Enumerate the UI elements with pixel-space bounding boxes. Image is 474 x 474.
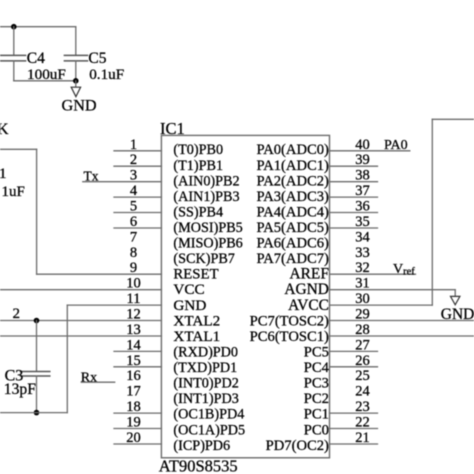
pin label PC0: [304, 422, 329, 438]
pin label XTAL1: [173, 328, 220, 345]
pin 39 stub right: [330, 165, 378, 167]
pin label (SCK)PB7: [173, 251, 235, 267]
svg-text:(OC1A)PD5: (OC1A)PD5: [173, 422, 245, 438]
pin number 10: [126, 276, 141, 292]
svg-text:37: 37: [355, 183, 370, 199]
label PA0: [384, 138, 408, 153]
pin label (INT0)PD2: [173, 376, 238, 392]
svg-text:17: 17: [126, 384, 141, 400]
pin number 39: [355, 152, 370, 168]
svg-text:3: 3: [130, 168, 137, 184]
svg-text:12: 12: [126, 307, 141, 323]
pin label (INT1)PD3: [173, 391, 238, 407]
pin label PC2: [304, 391, 329, 407]
svg-text:VCC: VCC: [173, 281, 204, 298]
wire AREF pin 32: [330, 273, 416, 275]
pin 26 stub right: [330, 366, 378, 368]
svg-text:(MOSI)PB5: (MOSI)PB5: [173, 220, 242, 236]
pin number 31: [355, 276, 370, 292]
svg-text:PC5: PC5: [304, 345, 329, 361]
svg-text:(INT0)PD2: (INT0)PD2: [173, 376, 238, 392]
svg-text:(T1)PB1: (T1)PB1: [173, 158, 223, 174]
svg-text:14: 14: [126, 337, 141, 353]
pin 19 stub left: [114, 428, 161, 430]
svg-text:IC1: IC1: [160, 119, 185, 138]
svg-text:1: 1: [0, 166, 7, 182]
node junction at C5 bottom: [73, 78, 79, 84]
svg-text:33: 33: [355, 245, 370, 261]
value 13pF: [4, 381, 36, 398]
pin number 22: [355, 415, 370, 431]
pin number 25: [355, 368, 370, 384]
pin 21 stub right: [330, 443, 378, 445]
pin 27 stub right: [330, 350, 378, 352]
svg-text:(OC1B)PD4: (OC1B)PD4: [173, 407, 244, 423]
svg-text:PA5(ADC5): PA5(ADC5): [256, 220, 329, 236]
pin number 28: [355, 322, 370, 338]
wire ground rail bottom left: [0, 412, 67, 414]
svg-text:C4: C4: [27, 50, 45, 67]
wire VCC to pin 10: [0, 289, 161, 291]
svg-text:PA4(ADC4): PA4(ADC4): [256, 204, 329, 220]
pin label PC1: [304, 407, 329, 423]
svg-text:27: 27: [355, 337, 370, 353]
pin number 9: [130, 260, 137, 276]
pin 1 stub left: [114, 150, 161, 152]
label Vref: [393, 262, 415, 278]
pin label (AIN0)PB2: [173, 173, 239, 189]
pin number 15: [126, 353, 141, 369]
ground symbol right: [451, 290, 460, 305]
pin number 36: [355, 199, 370, 215]
pin label (TXD)PD1: [173, 360, 237, 376]
pin number 34: [355, 229, 370, 245]
pin 4 stub left: [114, 196, 161, 198]
pin number 1: [130, 137, 137, 153]
pin label PC4: [304, 360, 330, 376]
pin number 12: [126, 307, 141, 323]
label C4: [27, 50, 45, 67]
svg-text:23: 23: [355, 399, 370, 415]
pin number 37: [355, 183, 370, 199]
node junction XTAL2 / C3: [34, 318, 40, 324]
svg-text:25: 25: [355, 368, 370, 384]
pin label PA4(ADC4): [256, 204, 329, 220]
pin 23 stub right: [330, 412, 378, 414]
wire AGND pin 31: [330, 289, 456, 291]
pin 37 stub right: [330, 196, 378, 198]
svg-text:13pF: 13pF: [4, 381, 36, 398]
svg-text:PA2(ADC2): PA2(ADC2): [256, 173, 329, 189]
label GND right: [441, 306, 474, 323]
pin number 29: [355, 307, 370, 323]
svg-text:22: 22: [355, 415, 370, 431]
svg-text:34: 34: [355, 229, 370, 245]
svg-text:(AIN0)PB2: (AIN0)PB2: [173, 173, 239, 189]
svg-text:20: 20: [126, 430, 141, 446]
svg-text:XTAL2: XTAL2: [173, 312, 220, 329]
pin number 13: [126, 322, 141, 338]
svg-text:AGND: AGND: [284, 281, 328, 298]
wire Rx stub: [81, 381, 114, 383]
pin number 26: [355, 353, 370, 369]
capacitor C4: [1, 27, 26, 81]
pin number 38: [355, 168, 370, 184]
capacitor C3: [21, 321, 50, 413]
capacitor C5: [64, 27, 87, 81]
svg-text:PC2: PC2: [304, 391, 329, 407]
pin number 8: [130, 245, 137, 261]
pin number 7: [130, 229, 137, 245]
wire PC7 TOSC2 pin 29: [330, 320, 474, 322]
svg-text:11: 11: [127, 291, 141, 307]
pin 35 stub right: [330, 227, 378, 229]
svg-text:13: 13: [126, 322, 141, 338]
svg-text:AREF: AREF: [290, 266, 329, 283]
svg-text:35: 35: [355, 214, 370, 230]
svg-text:10: 10: [126, 276, 141, 292]
label Rx: [81, 370, 97, 385]
svg-text:PA7(ADC7): PA7(ADC7): [256, 251, 329, 267]
pin label PD7(OC2): [266, 438, 329, 454]
pin number 27: [355, 337, 370, 353]
pin label PA5(ADC5): [256, 220, 329, 236]
svg-text:26: 26: [355, 353, 370, 369]
label K (cut off): [0, 121, 9, 138]
pin number 11: [127, 291, 141, 307]
svg-text:4: 4: [130, 183, 138, 199]
svg-text:18: 18: [126, 399, 141, 415]
wire reset vertical: [36, 149, 38, 274]
pin label PC6(TOSC1): [250, 329, 329, 345]
wire VCC top rail: [0, 26, 76, 28]
svg-text:PC1: PC1: [304, 407, 329, 423]
wire reset to pin 9: [37, 273, 162, 275]
svg-text:PA6(ADC6): PA6(ADC6): [256, 236, 329, 252]
pin number 2: [130, 152, 137, 168]
svg-text:(SS)PB4: (SS)PB4: [173, 204, 223, 220]
pin label PA1(ADC1): [256, 158, 329, 174]
pin 18 stub left: [114, 412, 161, 414]
svg-text:(RXD)PD0: (RXD)PD0: [173, 345, 238, 361]
svg-text:K: K: [0, 121, 9, 138]
svg-text:PA0: PA0: [384, 138, 408, 153]
pin number 16: [126, 368, 141, 384]
pin label PC7(TOSC2): [250, 313, 329, 329]
svg-text:1: 1: [130, 137, 137, 153]
svg-text:8: 8: [130, 245, 137, 261]
pin 22 stub right: [330, 428, 378, 430]
pin 5 stub left: [114, 212, 161, 214]
wire GND vertical: [66, 305, 68, 413]
wire AVCC vertical riser: [431, 119, 433, 305]
pin label (RXD)PD0: [173, 345, 238, 361]
wire VCC rail top right: [432, 118, 474, 120]
pin label PC3: [304, 376, 329, 392]
pin number 6: [130, 214, 137, 230]
pin label (AIN1)PB3: [173, 189, 239, 205]
pin label PA2(ADC2): [256, 173, 329, 189]
svg-text:15: 15: [126, 353, 141, 369]
label IC1: [160, 119, 185, 138]
wire Tx to pin 3: [83, 181, 162, 183]
svg-text:PA0(ADC0): PA0(ADC0): [256, 142, 329, 158]
svg-text:PC3: PC3: [304, 376, 329, 392]
pin label (T1)PB1: [173, 158, 223, 174]
svg-text:Rx: Rx: [81, 370, 97, 385]
svg-text:(AIN1)PB3: (AIN1)PB3: [173, 189, 239, 205]
wire AVCC pin 30: [330, 304, 433, 306]
svg-text:(MISO)PB6: (MISO)PB6: [173, 236, 242, 252]
value 1uF: [2, 184, 25, 200]
pin label XTAL2: [173, 312, 220, 329]
pin label (OC1A)PD5: [173, 422, 245, 438]
svg-text:(INT1)PD3: (INT1)PD3: [173, 391, 238, 407]
svg-text:XTAL1: XTAL1: [173, 328, 220, 345]
pin label AGND: [284, 281, 328, 298]
pin label (OC1B)PD4: [173, 407, 244, 423]
svg-text:36: 36: [355, 199, 370, 215]
svg-text:PA1(ADC1): PA1(ADC1): [256, 158, 329, 174]
pin number 40: [355, 137, 370, 153]
svg-text:2: 2: [13, 306, 21, 322]
svg-text:2: 2: [130, 152, 137, 168]
pin label GND: [173, 297, 206, 314]
pin 15 stub left: [114, 366, 161, 368]
svg-text:PC6(TOSC1): PC6(TOSC1): [250, 329, 329, 345]
svg-text:24: 24: [355, 384, 370, 400]
pin number 18: [126, 399, 141, 415]
pin label (T0)PB0: [173, 142, 223, 158]
pin 36 stub right: [330, 212, 378, 214]
wire PA0 pin 40: [330, 150, 410, 152]
pin number 20: [126, 430, 141, 446]
label crystal pin 2: [13, 306, 21, 322]
label AT90S8535: [159, 457, 238, 474]
pin label (MOSI)PB5: [173, 220, 242, 236]
svg-text:PC7(TOSC2): PC7(TOSC2): [250, 313, 329, 329]
svg-text:(SCK)PB7: (SCK)PB7: [173, 251, 235, 267]
pin label AREF: [290, 266, 329, 283]
svg-text:AT90S8535: AT90S8535: [159, 457, 238, 474]
pin number 3: [130, 168, 137, 184]
svg-text:5: 5: [130, 199, 137, 215]
svg-text:6: 6: [130, 214, 137, 230]
pin label PA7(ADC7): [256, 251, 329, 267]
pin 6 stub left: [114, 227, 161, 229]
svg-text:PC0: PC0: [304, 422, 329, 438]
pin label PA0(ADC0): [256, 142, 329, 158]
ground symbol top: [71, 81, 80, 97]
pin number 17: [126, 384, 141, 400]
pin number 14: [126, 337, 141, 353]
svg-text:7: 7: [130, 229, 137, 245]
pin number 32: [355, 260, 370, 276]
pin label VCC: [173, 281, 204, 298]
svg-text:AVCC: AVCC: [288, 297, 329, 314]
svg-text:39: 39: [355, 152, 370, 168]
svg-text:19: 19: [126, 415, 141, 431]
pin number 35: [355, 214, 370, 230]
wire XTAL2 to pin 12: [0, 320, 161, 322]
pin number 4: [130, 183, 138, 199]
label C5: [88, 50, 106, 67]
pin 14 stub left: [114, 350, 161, 352]
svg-text:PD7(OC2): PD7(OC2): [266, 438, 329, 454]
svg-text:(TXD)PD1: (TXD)PD1: [173, 360, 237, 376]
pin label RESET: [173, 267, 218, 283]
svg-text:(ICP)PD6: (ICP)PD6: [173, 438, 230, 454]
svg-text:GND: GND: [62, 97, 97, 115]
svg-text:21: 21: [355, 430, 370, 446]
pin 2 stub left: [114, 165, 161, 167]
wire XTAL1 to pin 13: [0, 335, 161, 337]
pin number 5: [130, 199, 137, 215]
wire C4-C5 bottom: [14, 80, 76, 82]
pin 20 stub left: [114, 443, 161, 445]
pin 38 stub right: [330, 181, 378, 183]
pin label PA3(ADC3): [256, 189, 329, 205]
wire reset horiz top: [0, 148, 37, 150]
value 0.1uF: [89, 66, 124, 83]
svg-text:0.1uF: 0.1uF: [89, 66, 124, 83]
pin label (SS)PB4: [173, 204, 223, 220]
svg-text:38: 38: [355, 168, 370, 184]
node junction at C4 top: [11, 24, 17, 30]
svg-text:GND: GND: [173, 297, 206, 314]
pin label (ICP)PD6: [173, 438, 230, 454]
wire GND to pin 11: [67, 304, 161, 306]
svg-text:1uF: 1uF: [2, 184, 25, 200]
pin label PA6(ADC6): [256, 236, 329, 252]
node junction C3 bottom: [34, 410, 40, 416]
svg-text:(T0)PB0: (T0)PB0: [173, 142, 223, 158]
value 100uF: [27, 66, 66, 83]
pin label (MISO)PB6: [173, 236, 242, 252]
pin label AVCC: [288, 297, 329, 314]
pin number 19: [126, 415, 141, 431]
pin number 21: [355, 430, 370, 446]
svg-text:PA3(ADC3): PA3(ADC3): [256, 189, 329, 205]
label GND top: [62, 97, 97, 115]
IC IC1 AT90S8535 box: [161, 135, 329, 457]
svg-text:9: 9: [130, 260, 137, 276]
pin number 30: [355, 291, 370, 307]
svg-text:PC4: PC4: [304, 360, 330, 376]
pin number 24: [355, 384, 370, 400]
label C3: [5, 367, 24, 384]
svg-text:C5: C5: [88, 50, 106, 67]
label Tx: [84, 169, 99, 184]
pin number 23: [355, 399, 370, 415]
label C1 (cut off): [0, 166, 7, 182]
svg-text:16: 16: [126, 368, 141, 384]
pin number 33: [355, 245, 370, 261]
wire PC6 TOSC1 pin 28: [330, 335, 474, 337]
pin label PC5: [304, 345, 329, 361]
